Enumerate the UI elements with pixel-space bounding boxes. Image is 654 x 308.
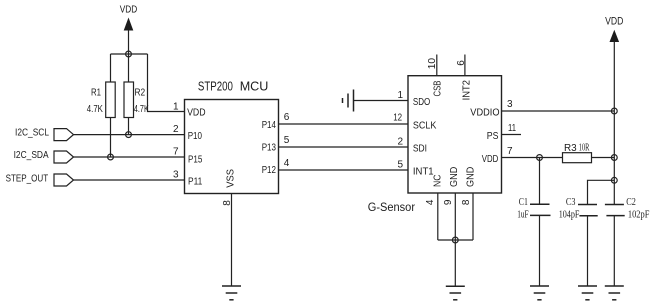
wire C1 top <box>539 158 541 205</box>
ground (C2) <box>605 286 624 300</box>
svg-text:VDD: VDD <box>482 154 499 165</box>
junction VDD7/C1 <box>537 155 543 161</box>
ground (MCU VSS) <box>222 286 241 300</box>
wire R1 bottom to SDA net <box>110 118 112 158</box>
svg-text:VDDIO: VDDIO <box>470 107 499 118</box>
svg-text:INT1: INT1 <box>413 167 434 178</box>
svg-text:VDD: VDD <box>120 5 138 16</box>
svg-text:104pF: 104pF <box>559 210 580 221</box>
svg-text:MCU: MCU <box>240 79 269 94</box>
svg-text:7: 7 <box>173 147 179 158</box>
svg-text:STP200: STP200 <box>198 79 233 94</box>
svg-text:SDO: SDO <box>413 97 431 108</box>
IC G-Sensor box <box>368 76 502 214</box>
svg-text:P10: P10 <box>188 131 203 142</box>
junction C3 branch/rail <box>611 177 617 183</box>
wire SDO to sideways ground <box>354 100 409 102</box>
wire VDD to MCU pin 1 <box>148 54 185 112</box>
resistor R2 <box>124 82 149 118</box>
svg-text:GND: GND <box>449 167 460 187</box>
wire to R1 top <box>110 54 112 82</box>
svg-text:5: 5 <box>284 135 290 146</box>
wire VDD rail down <box>613 42 615 205</box>
junction R2/I2C_SCL <box>126 132 132 138</box>
svg-text:R1: R1 <box>91 87 101 98</box>
svg-text:P11: P11 <box>188 177 203 188</box>
wire P13 to SDI <box>279 146 409 148</box>
wire I2C_SDA to MCU P15 <box>74 156 185 158</box>
port I2C_SDA <box>14 150 74 163</box>
ground (C3) <box>578 286 597 300</box>
svg-text:SDI: SDI <box>413 143 427 154</box>
svg-text:1: 1 <box>173 101 179 112</box>
svg-text:9: 9 <box>443 199 454 205</box>
wire C3 branch <box>588 180 615 204</box>
svg-text:2: 2 <box>397 136 403 147</box>
svg-text:GND: GND <box>466 167 477 187</box>
svg-text:P15: P15 <box>188 155 203 166</box>
capacitor C2 <box>605 197 650 221</box>
svg-text:CSB: CSB <box>433 80 444 96</box>
wire C1 bottom to ground <box>539 215 541 286</box>
wire MCU VSS to ground <box>231 194 233 287</box>
svg-text:2: 2 <box>173 124 179 135</box>
svg-text:1: 1 <box>397 90 403 101</box>
wire R3 to rail <box>592 157 615 159</box>
capacitor C1 <box>517 197 550 221</box>
svg-text:C1: C1 <box>519 197 528 208</box>
svg-text:11: 11 <box>508 123 516 134</box>
svg-text:I2C_SDA: I2C_SDA <box>14 150 49 161</box>
power VDD (right) <box>605 15 623 42</box>
svg-text:102pF: 102pF <box>628 210 650 221</box>
wire INT2 up stub <box>464 55 466 76</box>
svg-text:P13: P13 <box>262 143 277 154</box>
svg-text:3: 3 <box>173 170 179 181</box>
svg-text:6: 6 <box>284 112 290 123</box>
svg-text:C2: C2 <box>626 197 636 208</box>
svg-text:R2: R2 <box>135 87 146 98</box>
junction GND net <box>452 237 458 243</box>
wire R2 bottom to SCL net <box>128 118 130 135</box>
junction VDDIO/rail <box>611 108 617 114</box>
svg-text:12: 12 <box>393 113 402 124</box>
wire I2C_SCL to MCU P10 <box>74 134 185 136</box>
port I2C_SCL <box>15 127 74 140</box>
junction R1/I2C_SDA <box>108 154 114 160</box>
svg-text:P14: P14 <box>262 120 277 131</box>
IC STP200 MCU box <box>185 79 279 194</box>
junction at VDD split <box>126 51 132 57</box>
svg-text:4: 4 <box>425 199 436 205</box>
svg-text:4: 4 <box>284 158 290 169</box>
ground (G-Sensor) <box>446 286 465 300</box>
svg-text:VDD: VDD <box>605 15 623 27</box>
port STEP_OUT <box>6 173 74 186</box>
svg-text:3: 3 <box>507 99 513 110</box>
svg-text:7: 7 <box>507 146 513 157</box>
wire joining NC/GND/GND <box>438 239 473 241</box>
svg-text:I2C_SCL: I2C_SCL <box>15 127 49 138</box>
wire C3 bottom to ground <box>587 216 589 286</box>
junction R3/rail <box>611 155 617 161</box>
svg-text:NC: NC <box>433 174 444 187</box>
wire P12 to INT1 <box>279 169 409 171</box>
wire PS stub <box>502 134 522 136</box>
ground (C1) <box>530 286 549 300</box>
svg-text:SCLK: SCLK <box>413 120 437 131</box>
wire P14 to SCLK <box>279 123 409 125</box>
svg-text:G-Sensor: G-Sensor <box>368 202 415 214</box>
capacitor C3 <box>559 197 598 221</box>
wire C2 bottom to ground <box>613 216 615 286</box>
wire VDD horizontal to R1/R2 tops <box>111 53 148 55</box>
svg-text:INT2: INT2 <box>461 80 472 101</box>
svg-text:10R: 10R <box>579 143 590 154</box>
svg-text:8: 8 <box>461 199 472 205</box>
resistor R3 <box>563 142 592 163</box>
wire to R2 top <box>128 54 130 82</box>
svg-text:STEP_OUT: STEP_OUT <box>6 173 49 184</box>
wire STEP_OUT to MCU P11 <box>74 179 185 181</box>
wire VDD pin7 to R3 <box>502 157 563 159</box>
svg-text:C3: C3 <box>566 197 576 208</box>
wire GND8 down <box>472 193 474 240</box>
ground (sideways, SDO) <box>343 90 354 112</box>
svg-text:VSS: VSS <box>225 169 236 188</box>
wire VDDIO to rail <box>502 110 615 112</box>
svg-text:PS: PS <box>487 131 499 142</box>
svg-text:R3: R3 <box>564 142 577 154</box>
resistor R1 <box>87 82 115 118</box>
svg-text:4.7K: 4.7K <box>87 104 103 115</box>
svg-text:1uF: 1uF <box>517 210 529 221</box>
svg-text:4.7K: 4.7K <box>134 104 149 115</box>
svg-text:5: 5 <box>397 160 403 171</box>
wire GND9 down <box>454 193 456 240</box>
wire CSB up stub <box>436 55 438 76</box>
svg-text:VDD: VDD <box>187 108 206 119</box>
wire GND net to ground <box>454 240 456 286</box>
power VDD (left) <box>120 5 138 55</box>
wire NC down <box>437 193 439 240</box>
svg-text:P12: P12 <box>262 165 277 176</box>
